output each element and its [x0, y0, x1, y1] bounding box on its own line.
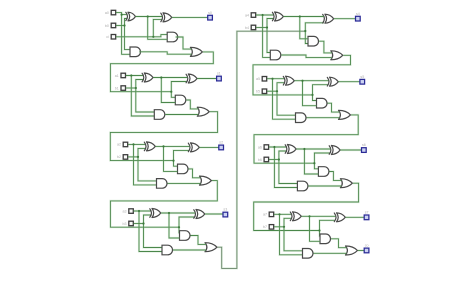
wire XOR1 out to AND1 — [148, 17, 168, 40]
wire b2 stub — [128, 156, 138, 158]
svg-text:s2: s2 — [219, 141, 223, 145]
wire XOR1 out to XOR2 — [296, 148, 330, 150]
wire a1 to XOR1 — [126, 74, 144, 76]
input pin a1 — [115, 73, 126, 78]
input pin b7 — [263, 225, 274, 230]
wire sum s5 — [339, 81, 360, 83]
full adder bit 4 — [0, 0, 1, 1]
junction b7 — [283, 226, 285, 228]
wire carry c6 into stage 6 — [254, 115, 358, 163]
xor gate XOR2 stage 0 — [161, 13, 172, 22]
svg-text:s5: s5 — [360, 75, 364, 79]
and gate AND2 stage 6 — [297, 181, 308, 191]
input pin b3 — [123, 221, 134, 226]
or gate OR stage 3 — [205, 243, 217, 252]
junction a4 — [262, 14, 264, 16]
junction XOR1 out — [301, 80, 303, 82]
wire AND1 out to OR — [186, 100, 198, 109]
wire a5 to XOR1 — [267, 78, 285, 80]
and gate AND1 stage 4 — [308, 36, 318, 46]
wire ci to AND1 — [153, 35, 167, 37]
wire b1 to XOR1 and AND2 — [136, 80, 155, 113]
wire XOR1 out to AND1 — [310, 216, 321, 241]
wire b2 to XOR1 and AND2 — [138, 148, 157, 181]
svg-text:a0: a0 — [105, 11, 109, 15]
junction b3 — [142, 222, 144, 224]
wire carry c4 from stage 3 up middle — [218, 31, 306, 268]
and gate AND1 stage 7 — [320, 234, 331, 244]
junction carry split — [318, 229, 320, 231]
or gate OR stage 4 — [331, 51, 343, 60]
xor gate XOR1 stage 5 — [283, 76, 294, 85]
output pin s3 — [223, 208, 228, 217]
output pin s4 — [356, 12, 361, 21]
input pin b4 — [245, 25, 256, 30]
wire b0 stub — [116, 24, 125, 26]
svg-text:a2: a2 — [117, 143, 121, 147]
wire b5 to XOR1 and AND2 — [277, 83, 296, 116]
or gate OR stage 6 — [340, 179, 352, 188]
and gate AND2 stage 3 — [162, 245, 173, 255]
wire sum s0 — [172, 16, 208, 18]
wire a3 branch to AND2 — [139, 211, 162, 252]
or gate OR stage 2 — [200, 176, 212, 185]
junction a1 — [130, 74, 132, 76]
wire XOR1 out to XOR2 — [295, 80, 329, 82]
svg-text:a3: a3 — [123, 209, 127, 213]
xor gate XOR1 stage 3 — [150, 209, 161, 218]
junction XOR1 out — [147, 15, 149, 17]
wire sum s2 — [200, 146, 219, 148]
svg-text:a7: a7 — [263, 213, 267, 217]
input pin a7 — [263, 212, 274, 217]
junction XOR1 out — [308, 215, 310, 217]
junction b2 — [137, 156, 139, 158]
wire carry c2 into stage 2 — [110, 112, 217, 161]
junction a5 — [271, 78, 273, 80]
wire a2 to XOR1 — [128, 143, 146, 145]
svg-text:b2: b2 — [117, 155, 121, 159]
junction carry split — [313, 162, 315, 164]
wire AND2 out to OR — [308, 185, 341, 187]
or gate OR stage 0 — [190, 47, 202, 56]
wire b7 to XOR1 and AND2 — [284, 218, 303, 251]
wire a7 branch to AND2 — [280, 214, 303, 255]
junction a0 — [121, 14, 123, 16]
svg-text:s3: s3 — [223, 208, 227, 212]
wire XOR1 out to AND1 — [303, 81, 317, 106]
wire a0 to XOR1 — [116, 13, 127, 15]
svg-text:s6: s6 — [362, 143, 366, 147]
xor gate XOR1 stage 7 — [290, 212, 301, 221]
and gate AND1 stage 6 — [318, 167, 329, 177]
wire XOR1 out to XOR2 — [136, 15, 163, 17]
full adder bit 0 — [0, 0, 1, 1]
junction a6 — [273, 146, 275, 148]
wire b4 to XOR1 and AND2 — [267, 19, 274, 53]
wire b6 stub — [269, 158, 279, 160]
wire b1 stub — [126, 87, 136, 89]
wire b3 to XOR1 and AND2 — [144, 215, 163, 248]
full adder bit 1 — [0, 0, 1, 1]
svg-text:a4: a4 — [245, 13, 249, 17]
wire AND2 out to OR — [139, 52, 191, 54]
svg-text:ci: ci — [106, 35, 109, 39]
wire XOR1 out to AND1 — [169, 213, 180, 238]
wire AND2 out to OR — [173, 249, 206, 251]
output pin s2 — [219, 141, 224, 150]
input pin b5 — [256, 89, 267, 94]
wire carry c7 into stage 7 — [254, 183, 359, 230]
junction carry split — [172, 160, 174, 162]
output pin s5 — [360, 75, 365, 84]
wire XOR1 out to XOR2 — [284, 15, 324, 17]
input pin a0 — [105, 10, 116, 15]
wire AND1 out to OR — [328, 103, 340, 112]
and gate AND2 stage 2 — [157, 179, 168, 189]
input pin a4 — [245, 13, 256, 17]
wire carry c4 to AND1 — [305, 31, 308, 44]
wire a6 to XOR1 — [269, 146, 287, 148]
svg-text:b6: b6 — [258, 158, 262, 162]
xor gate XOR1 stage 2 — [144, 142, 155, 151]
wire sum s4 — [334, 18, 355, 20]
wire carry to XOR and AND — [314, 153, 330, 163]
input pin a6 — [258, 145, 269, 150]
and gate AND2 stage 1 — [154, 110, 165, 120]
junction XOR1 out — [303, 148, 305, 150]
wire XOR1 out to AND1 — [161, 78, 175, 103]
xor gate XOR2 stage 1 — [186, 74, 197, 83]
wire AND1 out to OR — [319, 41, 332, 53]
or gate OR stage 7 — [346, 246, 358, 255]
junction XOR1 out stage 4 — [299, 15, 301, 17]
input pin b0 — [105, 23, 116, 28]
wire XOR1 out to AND1 — [300, 17, 308, 39]
svg-text:co: co — [365, 244, 369, 248]
wire AND2 out to OR — [307, 117, 340, 119]
and gate AND1 stage 2 — [178, 164, 189, 174]
wire a7 to XOR1 — [274, 213, 292, 215]
wire a1 branch to AND2 — [131, 76, 154, 117]
wire a4 to XOR1 — [256, 14, 274, 16]
wire AND1 out to OR — [331, 239, 347, 248]
and gate AND2 stage 7 — [303, 249, 314, 259]
wire carry to XOR and AND — [174, 150, 190, 160]
wire XOR1 out to XOR2 — [161, 212, 195, 214]
full adder bit 2 — [0, 0, 1, 1]
and gate AND1 stage 5 — [317, 98, 328, 108]
junction ci — [152, 36, 154, 38]
input pin a2 — [117, 142, 128, 147]
input pin b2 — [117, 155, 128, 160]
wire AND1 out to OR — [176, 37, 192, 49]
junction carry c4 — [304, 30, 306, 32]
output pin s7 — [364, 211, 369, 220]
wire carry to XOR and AND — [320, 220, 336, 230]
wire AND2 out to OR — [168, 182, 201, 184]
svg-text:s4: s4 — [356, 12, 360, 16]
junction b5 — [276, 90, 278, 92]
xor gate XOR1 stage 1 — [142, 73, 153, 82]
wire b3 stub — [134, 222, 144, 224]
wire carry out co — [358, 249, 364, 251]
wire carry to XOR and AND — [179, 217, 195, 227]
wire ci to XOR2 and AND1 — [116, 19, 162, 36]
input pin a5 — [256, 77, 267, 82]
wire XOR1 out to XOR2 — [153, 76, 187, 78]
wire b6 to XOR1 and AND2 — [279, 151, 298, 184]
wire a4 branch to AND2 — [263, 15, 271, 57]
and gate AND1 stage 0 — [167, 32, 177, 42]
junction b1 — [135, 87, 137, 89]
junction XOR1 out — [168, 212, 170, 214]
wire XOR1 out to XOR2 — [156, 145, 190, 147]
junction XOR1 out — [160, 76, 162, 78]
wire b7 stub — [274, 226, 284, 228]
and gate AND2 stage 5 — [296, 113, 306, 123]
junction a7 — [278, 213, 280, 215]
output pin s1 — [217, 72, 222, 81]
wire carry to XOR and AND — [171, 82, 187, 92]
wire AND1 out to OR — [329, 172, 341, 181]
wire carry c5 into stage 5 — [253, 55, 351, 95]
svg-text:b7: b7 — [263, 225, 267, 229]
svg-text:b1: b1 — [115, 86, 119, 90]
xor gate XOR2 stage 4 — [323, 14, 334, 23]
svg-text:b0: b0 — [105, 24, 109, 28]
svg-text:s1: s1 — [217, 72, 221, 76]
xor gate XOR2 stage 5 — [327, 77, 338, 86]
svg-text:b3: b3 — [123, 222, 127, 226]
full adder bit 7 — [0, 0, 1, 1]
wire sum s1 — [197, 77, 216, 79]
full adder bit 5 — [0, 0, 1, 1]
wire sum s3 — [205, 213, 223, 215]
wire AND2 out to OR — [165, 113, 198, 115]
output pin s6 — [362, 143, 367, 152]
junction carry split — [178, 226, 180, 228]
junction b4 — [266, 26, 268, 28]
wire carry c3 into stage 3 — [110, 181, 217, 228]
wire a2 branch to AND2 — [134, 144, 157, 185]
xor gate XOR2 stage 2 — [188, 143, 199, 152]
wire b0 to XOR1 and AND2 — [125, 19, 131, 50]
input pin a3 — [123, 209, 134, 214]
wire a3 to XOR1 — [134, 210, 152, 212]
wire carry to XOR and AND — [313, 85, 329, 95]
wire AND2 out to OR — [314, 252, 347, 254]
or gate OR stage 1 — [197, 107, 209, 116]
input pin b1 — [115, 86, 126, 91]
full adder bit 6 — [0, 0, 1, 1]
wire b5 stub — [267, 90, 277, 92]
input pin ci carry in — [106, 35, 115, 40]
output pin s0 — [208, 11, 213, 20]
and gate AND2 stage 4 — [270, 50, 281, 60]
full adder bit 3 — [0, 0, 1, 1]
and gate AND1 stage 1 — [175, 95, 186, 105]
xor gate XOR1 stage 6 — [285, 145, 296, 154]
and gate AND1 stage 3 — [180, 231, 190, 241]
wire b4 stub — [256, 26, 267, 28]
wire XOR1 out to AND1 — [304, 149, 318, 174]
and gate AND2 stage 0 — [130, 47, 141, 57]
junction carry split — [311, 94, 313, 96]
xor gate XOR2 stage 6 — [329, 146, 340, 155]
svg-text:a6: a6 — [258, 145, 262, 149]
xor gate XOR1 stage 4 — [272, 12, 283, 21]
wire carry c4 to XOR2 — [305, 23, 324, 31]
junction b0 — [123, 24, 125, 26]
junction XOR1 out — [162, 145, 164, 147]
svg-text:b5: b5 — [256, 90, 260, 94]
xor gate XOR1 stage 0 — [126, 12, 136, 21]
xor gate XOR2 stage 7 — [334, 213, 345, 222]
wire a0 branch to AND2 — [122, 15, 130, 55]
wire a6 branch to AND2 — [274, 147, 297, 188]
output pin co — [364, 244, 369, 253]
wire sum s7 — [346, 216, 365, 218]
input pin b6 — [258, 157, 269, 162]
wire AND1 out to OR — [191, 236, 207, 245]
or gate OR stage 5 — [339, 110, 351, 119]
junction a2 — [132, 143, 134, 145]
wire sum s6 — [340, 149, 361, 151]
svg-text:a5: a5 — [256, 77, 260, 81]
wire AND1 out to OR — [189, 169, 201, 178]
junction b6 — [278, 158, 280, 160]
wire a5 branch to AND2 — [273, 79, 296, 120]
junction a3 — [138, 210, 140, 212]
xor gate XOR2 stage 3 — [194, 210, 205, 219]
svg-text:s7: s7 — [365, 211, 369, 215]
wire AND2 out to OR — [281, 55, 332, 58]
svg-text:b4: b4 — [245, 26, 249, 30]
svg-text:s0: s0 — [208, 11, 212, 15]
junction carry split — [170, 91, 172, 93]
wire XOR1 out to XOR2 — [302, 215, 336, 217]
wire XOR1 out to AND1 — [164, 146, 178, 171]
svg-text:a1: a1 — [115, 74, 119, 78]
wire carry c1 into stage 1 — [110, 52, 213, 92]
